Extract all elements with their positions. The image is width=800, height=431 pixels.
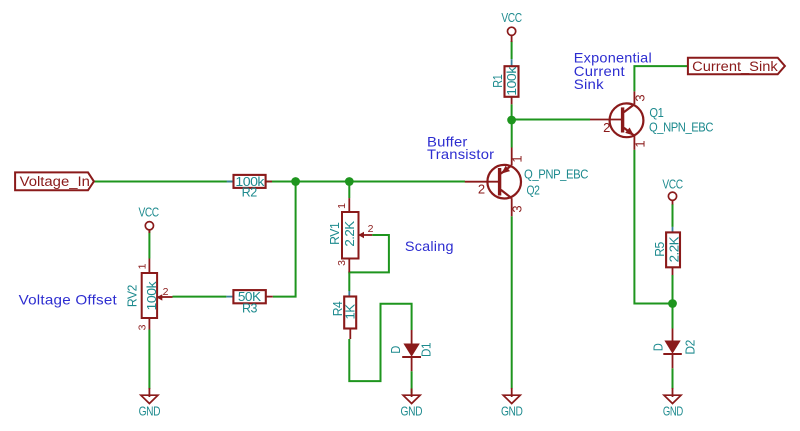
svg-text:Scaling: Scaling	[405, 238, 454, 254]
svg-text:3: 3	[510, 205, 525, 212]
svg-text:Q1: Q1	[649, 105, 663, 120]
svg-text:D2: D2	[683, 340, 698, 355]
svg-text:100k: 100k	[144, 281, 159, 311]
svg-text:Voltage Offset: Voltage Offset	[19, 292, 117, 308]
svg-text:1: 1	[336, 203, 348, 209]
svg-text:Q_NPN_EBC: Q_NPN_EBC	[649, 120, 713, 135]
svg-text:D: D	[650, 344, 665, 352]
svg-text:1: 1	[633, 140, 648, 147]
svg-text:GND: GND	[663, 404, 683, 419]
svg-text:VCC: VCC	[501, 10, 521, 25]
svg-text:R2: R2	[242, 184, 257, 199]
svg-text:3: 3	[633, 94, 648, 101]
svg-text:2.2K: 2.2K	[666, 236, 681, 262]
svg-text:D: D	[388, 346, 403, 354]
svg-text:Sink: Sink	[574, 76, 605, 92]
svg-text:2: 2	[368, 223, 374, 235]
svg-text:VCC: VCC	[138, 204, 158, 219]
svg-text:R5: R5	[652, 242, 667, 257]
svg-text:RV1: RV1	[327, 222, 342, 244]
svg-text:GND: GND	[139, 404, 161, 419]
svg-text:Q_PNP_EBC: Q_PNP_EBC	[524, 167, 588, 182]
svg-text:1K: 1K	[342, 304, 357, 320]
svg-text:Transistor: Transistor	[427, 146, 494, 162]
svg-text:Current_Sink: Current_Sink	[692, 59, 778, 74]
svg-text:2.2K: 2.2K	[342, 221, 357, 247]
svg-text:Q2: Q2	[527, 183, 540, 198]
svg-text:D1: D1	[419, 343, 434, 357]
svg-text:2: 2	[478, 182, 485, 197]
svg-text:GND: GND	[501, 404, 523, 419]
svg-text:GND: GND	[401, 403, 423, 418]
svg-text:2: 2	[163, 286, 169, 298]
svg-text:R1: R1	[490, 74, 505, 87]
svg-text:1: 1	[510, 155, 525, 162]
svg-text:RV2: RV2	[124, 285, 139, 307]
svg-text:3: 3	[336, 260, 348, 266]
svg-text:R3: R3	[242, 301, 257, 316]
svg-text:VCC: VCC	[662, 176, 682, 191]
svg-text:1: 1	[137, 263, 149, 269]
svg-text:Voltage_In: Voltage_In	[20, 174, 90, 189]
svg-text:100k: 100k	[504, 66, 519, 96]
svg-text:3: 3	[137, 324, 149, 330]
svg-text:2: 2	[603, 120, 610, 135]
